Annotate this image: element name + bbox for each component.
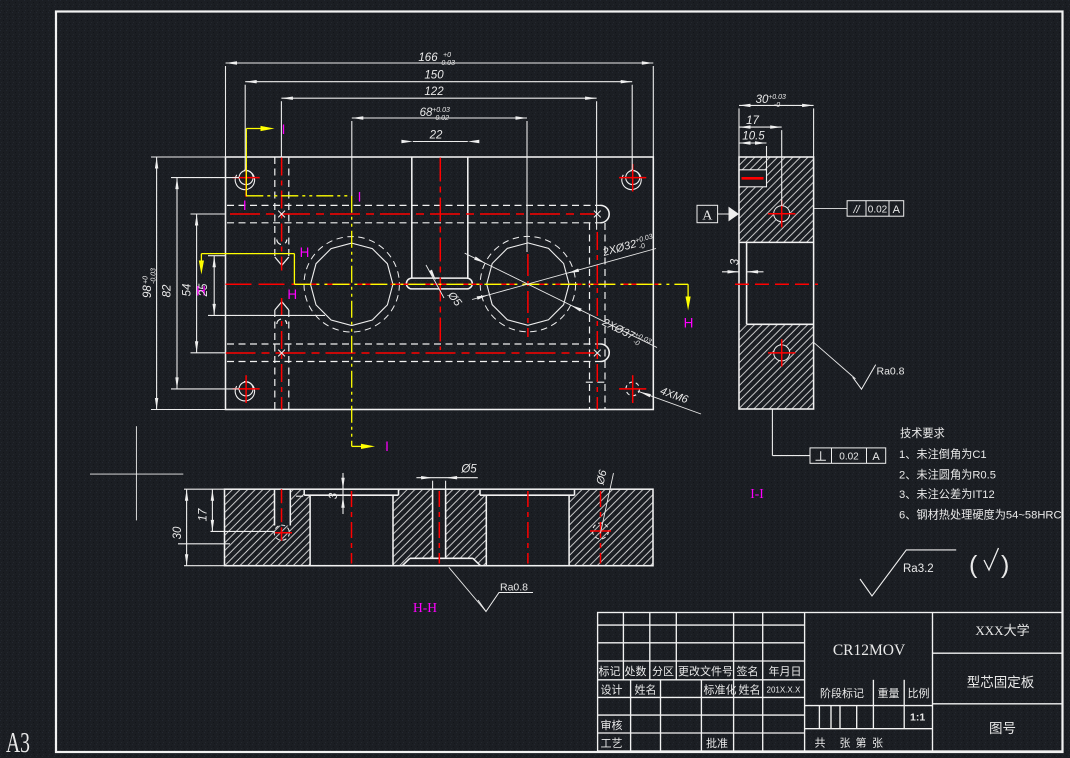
Ra0.8 bottom — [449, 567, 486, 611]
top slot centerline — [230, 213, 595, 215]
svg-text:A: A — [893, 204, 901, 216]
svg-text:30: 30 — [172, 526, 184, 539]
perpendicularity frame — [772, 409, 810, 456]
svg-text:166: 166 — [418, 52, 438, 64]
dim 22 — [413, 141, 468, 143]
svg-text:H: H — [684, 316, 694, 331]
phi6 hole dashed circle — [593, 523, 609, 539]
center channel wall left — [411, 157, 413, 278]
stray centerline cross — [90, 426, 183, 520]
M6 counterbore circle — [274, 525, 289, 540]
svg-text:150: 150 — [424, 70, 444, 82]
left column centerline — [281, 158, 283, 271]
title block frame — [598, 613, 1063, 752]
svg-text:阶段标记: 阶段标记 — [820, 686, 864, 700]
hatch block P1-channel — [393, 489, 433, 566]
leader 2X phi32 — [472, 249, 656, 300]
large bore right: dashed circle — [480, 236, 575, 331]
large bore right: solid 12-gon circle — [487, 243, 569, 325]
hatch upper block — [739, 157, 814, 242]
leader phi5 slot — [426, 265, 444, 298]
svg-text:54: 54 — [182, 284, 194, 297]
svg-text:0.02: 0.02 — [868, 205, 888, 216]
right column centerline — [596, 232, 598, 410]
svg-text:年月日: 年月日 — [769, 664, 802, 678]
svg-text:批准: 批准 — [706, 736, 728, 750]
svg-text:17: 17 — [198, 508, 210, 521]
side view dimensions — [722, 105, 814, 271]
svg-text:22: 22 — [429, 130, 443, 142]
svg-text:1、未注倒角为C1: 1、未注倒角为C1 — [899, 447, 987, 461]
yellow section line H-H — [201, 254, 688, 299]
large bore left: dashed circle — [304, 237, 399, 332]
svg-text:姓名: 姓名 — [739, 683, 761, 697]
dim 82 — [176, 178, 178, 389]
svg-text:处数: 处数 — [625, 665, 647, 678]
red crosses on holes — [735, 200, 818, 367]
svg-text:标记: 标记 — [599, 664, 621, 678]
Ra3.2 symbol — [860, 550, 956, 596]
H-H dims — [178, 473, 478, 566]
dim 150 — [245, 81, 632, 83]
dim 3 lip — [342, 473, 344, 514]
dim 166 — [226, 62, 654, 64]
svg-text:审核: 审核 — [601, 718, 623, 732]
svg-text:+0.03: +0.03 — [768, 94, 786, 101]
svg-text:H: H — [287, 287, 297, 302]
svg-text:A: A — [872, 451, 880, 463]
bottom slot edges — [227, 343, 601, 345]
red centerlines H-H — [275, 489, 611, 563]
main view outline — [226, 157, 654, 410]
M6 screw holes (4x) — [231, 167, 645, 405]
left table horizontals — [598, 624, 805, 626]
datum triangle — [729, 207, 740, 222]
hidden slots / columns (dashed white) — [227, 157, 608, 410]
right hidden column — [589, 223, 591, 410]
svg-text:Ra3.2: Ra3.2 — [903, 563, 934, 575]
bottom slot centerline — [226, 352, 595, 354]
svg-text:+0.03: +0.03 — [432, 107, 450, 114]
svg-text:第: 第 — [856, 736, 867, 750]
svg-text:(: ( — [969, 551, 978, 579]
svg-text:I: I — [282, 122, 286, 137]
svg-text:-0.03: -0.03 — [151, 268, 158, 284]
magenta section letters — [196, 122, 693, 454]
svg-text:82: 82 — [162, 284, 174, 297]
svg-text:重量: 重量 — [878, 686, 900, 700]
svg-text:3: 3 — [328, 492, 340, 499]
svg-text:Ra0.8: Ra0.8 — [877, 366, 905, 378]
technical notes — [899, 427, 1062, 522]
right column step — [586, 381, 608, 383]
M6 drill — [274, 489, 276, 525]
svg-text:30: 30 — [756, 94, 769, 106]
leader 4XM6 — [638, 391, 701, 414]
svg-text:17: 17 — [746, 115, 759, 127]
hatch block channel-P2 — [446, 489, 487, 566]
screw notch (unhatched) — [739, 170, 767, 187]
svg-text:6、钢材热处理硬度为54~58HRC: 6、钢材热处理硬度为54~58HRC — [899, 508, 1062, 522]
left hidden column lower — [274, 310, 276, 410]
P2 pocket — [479, 489, 481, 495]
svg-text:XXX大学: XXX大学 — [975, 623, 1029, 638]
red screw line — [742, 177, 764, 180]
dimensions of main view — [151, 63, 653, 410]
slot stadium (obround) — [406, 278, 472, 289]
dimension arrows — [226, 61, 238, 64]
svg-text:张: 张 — [872, 737, 883, 750]
svg-text:比例: 比例 — [908, 686, 930, 700]
svg-text:H: H — [300, 245, 310, 260]
red centerlines — [226, 158, 662, 410]
phi5 dim — [416, 477, 477, 479]
right bore vertical centerline — [527, 254, 529, 337]
svg-text:张: 张 — [840, 737, 851, 750]
svg-text:I: I — [243, 198, 247, 213]
svg-text:-0.03: -0.03 — [439, 60, 455, 67]
hatch right block — [569, 489, 653, 566]
svg-text:CR12MOV: CR12MOV — [833, 642, 906, 659]
svg-text:3: 3 — [730, 258, 742, 265]
svg-text:更改文件号: 更改文件号 — [678, 664, 733, 678]
upper hole circle — [774, 206, 790, 222]
side view outline — [739, 157, 814, 409]
svg-text:姓名: 姓名 — [635, 683, 657, 697]
dim 98 — [156, 157, 158, 410]
phi6 leader — [600, 473, 613, 533]
svg-text:98: 98 — [142, 285, 154, 298]
channel centerline — [439, 158, 441, 351]
dim 68 — [352, 117, 527, 119]
svg-text:分区: 分区 — [652, 665, 674, 678]
svg-text:I-I: I-I — [750, 486, 764, 501]
svg-text:2、未注圆角为R0.5: 2、未注圆角为R0.5 — [899, 468, 996, 482]
svg-text:68: 68 — [420, 107, 433, 119]
large bore left: solid 12-gon circle — [311, 243, 393, 325]
top slot right end cap — [601, 205, 610, 222]
dim 54 — [196, 214, 198, 353]
svg-text:签名: 签名 — [737, 664, 759, 678]
svg-text:I: I — [385, 439, 389, 454]
left column drill tips — [275, 257, 289, 265]
svg-text:Ra0.8: Ra0.8 — [500, 582, 528, 594]
svg-text:201X.X.X: 201X.X.X — [767, 686, 801, 695]
center channel — [432, 489, 434, 558]
svg-text:-0.02: -0.02 — [433, 115, 449, 122]
svg-text:-0: -0 — [774, 102, 780, 109]
dim 3 — [722, 271, 739, 273]
svg-text:A3: A3 — [6, 728, 30, 758]
left table verticals — [622, 613, 624, 680]
main horizontal centerline — [226, 283, 662, 285]
svg-text:25: 25 — [198, 283, 210, 297]
svg-text:122: 122 — [424, 86, 444, 98]
dim 122 — [281, 97, 596, 99]
center channel wall right — [467, 157, 469, 278]
svg-text:工艺: 工艺 — [601, 737, 623, 750]
parallelism frame — [814, 207, 848, 209]
svg-text:H-H: H-H — [413, 600, 437, 615]
svg-text:10.5: 10.5 — [742, 131, 765, 143]
Ra0.8 side — [814, 342, 856, 379]
svg-text:+0: +0 — [443, 52, 451, 59]
hatch left block — [225, 489, 311, 566]
svg-text:I: I — [358, 190, 362, 205]
svg-text:3、未注公差为IT12: 3、未注公差为IT12 — [899, 487, 995, 501]
svg-text:图号: 图号 — [989, 721, 1016, 736]
svg-text://: // — [852, 204, 860, 216]
middle section — [932, 613, 934, 752]
svg-text:Ø5: Ø5 — [460, 464, 477, 476]
lower hole circle — [774, 345, 790, 361]
dimension texts — [142, 52, 455, 298]
svg-text:设计: 设计 — [601, 684, 623, 697]
H-H outline — [225, 489, 654, 566]
svg-text:): ) — [1001, 551, 1009, 579]
svg-text:0.02: 0.02 — [839, 452, 859, 463]
top slot edges — [227, 204, 601, 206]
title block texts — [599, 664, 930, 750]
bottom slot right end cap — [601, 344, 610, 362]
red mid centerline — [735, 283, 818, 285]
leader 2X phi37 — [465, 253, 657, 347]
yellow section line I-I — [246, 129, 363, 447]
svg-text:型芯固定板: 型芯固定板 — [967, 675, 1035, 690]
dim 25 — [213, 256, 215, 316]
svg-text:+0: +0 — [143, 276, 150, 284]
svg-text:共: 共 — [815, 737, 826, 750]
svg-text:标准化: 标准化 — [704, 683, 737, 697]
M6 hole crosses — [233, 177, 260, 179]
hatch lower block — [739, 324, 814, 409]
P1 pocket — [303, 489, 305, 495]
left hidden column upper — [274, 157, 276, 257]
crossing X markers — [278, 211, 601, 357]
svg-text:1:1: 1:1 — [910, 712, 925, 724]
svg-text:技术要求: 技术要求 — [900, 427, 945, 440]
datum A box — [697, 205, 718, 222]
right section — [933, 652, 1063, 654]
svg-text:A: A — [702, 209, 713, 224]
